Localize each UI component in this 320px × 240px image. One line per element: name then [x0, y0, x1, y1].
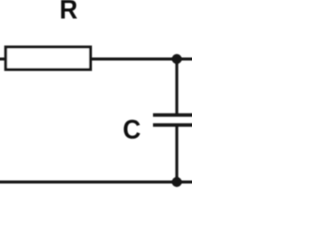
svg-text:R: R — [60, 0, 78, 25]
capacitor C — [153, 115, 200, 125]
wire capacitor bottom plate to bottom rail — [175, 125, 178, 182]
node junction top (R-C net) — [172, 54, 182, 64]
svg-text:C: C — [123, 114, 141, 145]
node junction bottom (rail) — [172, 177, 182, 187]
wire resistor to junction node — [91, 58, 177, 61]
wire bottom rail — [0, 181, 194, 184]
wire junction to right edge — [177, 58, 194, 61]
resistor R — [6, 47, 91, 70]
wire junction down to capacitor top plate — [175, 59, 178, 115]
wire left lead into resistor — [0, 58, 6, 61]
